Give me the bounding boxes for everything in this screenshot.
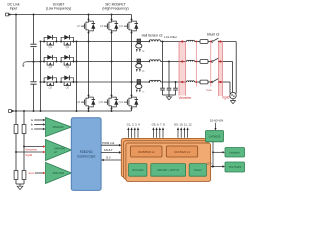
regulator TLV76133 <box>225 162 245 172</box>
resistor divider chain B <box>23 111 25 125</box>
wire row 2 segments <box>137 61 148 63</box>
svg-text:Q10: Q10 <box>99 101 104 104</box>
svg-text:Vgrid: Vgrid <box>25 153 32 157</box>
wire tap A to amplifier U2 <box>16 151 43 153</box>
svg-text:Hall Sensor x3: Hall Sensor x3 <box>142 34 163 38</box>
op-amp U2 OPA4340 x2 <box>46 140 72 161</box>
relay switch S1 <box>211 41 213 43</box>
node leg 1 to phase row 1 <box>88 41 90 43</box>
wire row 3 segments <box>137 81 148 83</box>
node filter cap tap row 1 <box>162 41 164 43</box>
inductor L3a <box>149 80 160 82</box>
wire cap bank common <box>163 94 176 96</box>
ground (filter bank) <box>168 95 170 97</box>
gate driver block UCC5320 <box>166 146 197 157</box>
svg-text:UCC14240: UCC14240 <box>132 170 144 172</box>
wire tap B to amplifier U2 <box>24 146 43 148</box>
ground (dividers) <box>16 183 24 185</box>
amplifier U3 AMC1306 <box>46 163 72 184</box>
hall sensor CT1 <box>137 39 140 43</box>
wire VIN to LM76003 <box>215 123 217 128</box>
svg-text:Q5: Q5 <box>49 87 53 90</box>
node hall output row 3 <box>148 81 150 83</box>
terminal DC+ input <box>6 13 9 16</box>
svg-text:Q6: Q6 <box>66 87 70 90</box>
inductor L3b <box>187 81 195 82</box>
svg-text:AMC1306: AMC1306 <box>53 171 65 175</box>
hall sensor CT2 <box>137 59 140 63</box>
wire phase row 3 (Si section) <box>41 81 138 83</box>
wire SiC leg 3 vertical <box>131 15 133 20</box>
svg-text:Iout: Iout <box>29 171 34 175</box>
AC source Grid <box>230 92 236 98</box>
highlight band Vinverter sense <box>179 42 186 96</box>
resistor divider chain A <box>15 124 17 126</box>
MCU block F2837xD Control Card <box>71 118 101 191</box>
svg-text:UCC5320 x2: UCC5320 x2 <box>174 150 190 154</box>
svg-text:Q12: Q12 <box>119 101 124 104</box>
transistor Q6 (Si, with antiparallel diode) <box>61 78 73 86</box>
block AMC1311 + ISO7721 <box>151 164 186 177</box>
terminal DC- input <box>9 110 12 113</box>
block Isolation <box>225 148 245 158</box>
hall sensor CT3 <box>137 80 140 84</box>
svg-text:Input: Input <box>10 7 18 11</box>
svg-text:Q4: Q4 <box>66 66 70 69</box>
svg-text:Shunt x3: Shunt x3 <box>207 32 220 36</box>
transistor Q3 (Si, with antiparallel diode) <box>44 57 56 65</box>
svg-text:Q11: Q11 <box>119 25 124 28</box>
block Power <box>189 164 206 177</box>
bias block UCC14240 <box>129 164 147 177</box>
wire Si left rail <box>40 42 42 112</box>
svg-text:LM76003: LM76003 <box>209 134 221 138</box>
relay switch S3 <box>211 81 213 83</box>
transistor Q7 (SiC MOSFET with body diode) <box>81 20 95 33</box>
transistor Q9 (SiC MOSFET with body diode) <box>104 20 118 33</box>
node hall output row 2 <box>148 61 150 63</box>
wire DC-link capacitor chain <box>33 15 35 44</box>
inductor L1a <box>149 40 160 42</box>
svg-text:PWM x12: PWM x12 <box>102 141 115 145</box>
shunt resistor R2 <box>200 60 208 64</box>
wire phase row 1 (Si section) <box>41 41 138 43</box>
svg-text:Power: Power <box>194 168 202 172</box>
node DC midpoint + wire to Si rail <box>26 61 40 63</box>
inductor L1b <box>187 40 195 41</box>
svg-text:12 V: 12 V <box>206 162 212 166</box>
transistor Q8 (SiC MOSFET with body diode) <box>81 96 95 109</box>
wire phase row 2 (Si section) <box>41 61 138 63</box>
inductor L2a <box>149 60 160 62</box>
transistor Q2 (Si, with antiparallel diode) <box>61 37 73 45</box>
node leg 2 to phase row 2 <box>111 61 113 63</box>
svg-text:Control Card: Control Card <box>77 154 95 158</box>
transistor Q11 (SiC MOSFET with body diode) <box>124 20 138 33</box>
sense lines Iout (shunt kelvin) <box>195 42 197 87</box>
node hall output row 1 <box>148 41 150 43</box>
gate driver block ISO5852S <box>131 146 162 157</box>
filter capacitor bank Cf1-Cf3 <box>162 42 164 89</box>
transistor Q5 (Si, with antiparallel diode) <box>44 78 56 86</box>
svg-text:AMC1311 + ISO7721: AMC1311 + ISO7721 <box>157 169 179 172</box>
wire SiC leg 1 vertical <box>88 15 90 20</box>
wire row 1 segments <box>137 41 148 43</box>
wire row 1 to grid <box>219 41 237 43</box>
relay switch S2 <box>211 61 213 63</box>
transistor Q10 (SiC MOSFET with body diode) <box>104 96 118 109</box>
svg-text:Vgrid: Vgrid <box>222 96 230 100</box>
svg-text:G5, 6, 7, 8: G5, 6, 7, 8 <box>152 122 166 126</box>
capacitor C2 (DC link lower) <box>30 81 36 83</box>
svg-text:Q3: Q3 <box>49 66 53 69</box>
svg-text:Vinverter: Vinverter <box>25 147 37 151</box>
node filter cap tap row 3 <box>175 81 177 83</box>
op-amp U1 OPA4340 <box>46 118 72 137</box>
node leg 3 to phase row 3 <box>131 81 133 83</box>
svg-text:Q1: Q1 <box>49 46 53 49</box>
transistor Q12 (SiC MOSFET with body diode) <box>124 96 138 109</box>
svg-text:Vinverter: Vinverter <box>179 96 193 100</box>
svg-text:G9, 10, 11, 12: G9, 10, 11, 12 <box>174 122 192 126</box>
svg-text:(Low Frequency): (Low Frequency) <box>46 7 71 11</box>
svg-text:TLV76133: TLV76133 <box>228 165 241 169</box>
transistor Q4 (Si, with antiparallel diode) <box>61 57 73 65</box>
wire row 2 to grid <box>219 61 233 63</box>
shunt resistor R3 <box>200 80 208 84</box>
wire SiC leg 2 vertical <box>111 15 113 20</box>
highlight band Vgrid sense <box>219 42 223 97</box>
wire bottom DC bus <box>11 110 131 112</box>
wire LM76003 output <box>212 142 214 167</box>
svg-text:FAULT: FAULT <box>104 148 113 152</box>
inductor L2b <box>187 60 195 61</box>
node filter cap tap row 2 <box>168 61 170 63</box>
transistor Q1 (Si, with antiparallel diode) <box>44 37 56 45</box>
svg-text:LCL Filter: LCL Filter <box>164 35 177 39</box>
svg-text:Q2: Q2 <box>66 46 70 49</box>
svg-text:ISO5852S x2: ISO5852S x2 <box>138 150 155 154</box>
regulator LM76003 <box>206 131 224 142</box>
probe arrow at DC midpoint <box>23 62 27 67</box>
svg-text:Iout: Iout <box>206 88 211 92</box>
svg-text:OPA4340: OPA4340 <box>53 125 65 129</box>
wire Si right rail <box>76 42 78 112</box>
svg-text:G1, 2, 3, 4: G1, 2, 3, 4 <box>127 122 141 126</box>
svg-text:(High Frequency): (High Frequency) <box>102 7 128 11</box>
capacitor C1 (DC link upper) <box>30 43 36 45</box>
wire top DC bus <box>8 14 131 16</box>
shunt resistor R1 <box>200 40 208 44</box>
svg-text:15-60 VIN: 15-60 VIN <box>210 119 224 123</box>
svg-text:Isolation: Isolation <box>229 151 240 155</box>
svg-text:I2,V: I2,V <box>106 156 111 160</box>
card stack (gate driver boards) <box>121 138 206 176</box>
ground (grid) <box>232 99 234 101</box>
wire row 3 to grid <box>219 81 230 83</box>
wire sense rail A <box>15 15 17 125</box>
